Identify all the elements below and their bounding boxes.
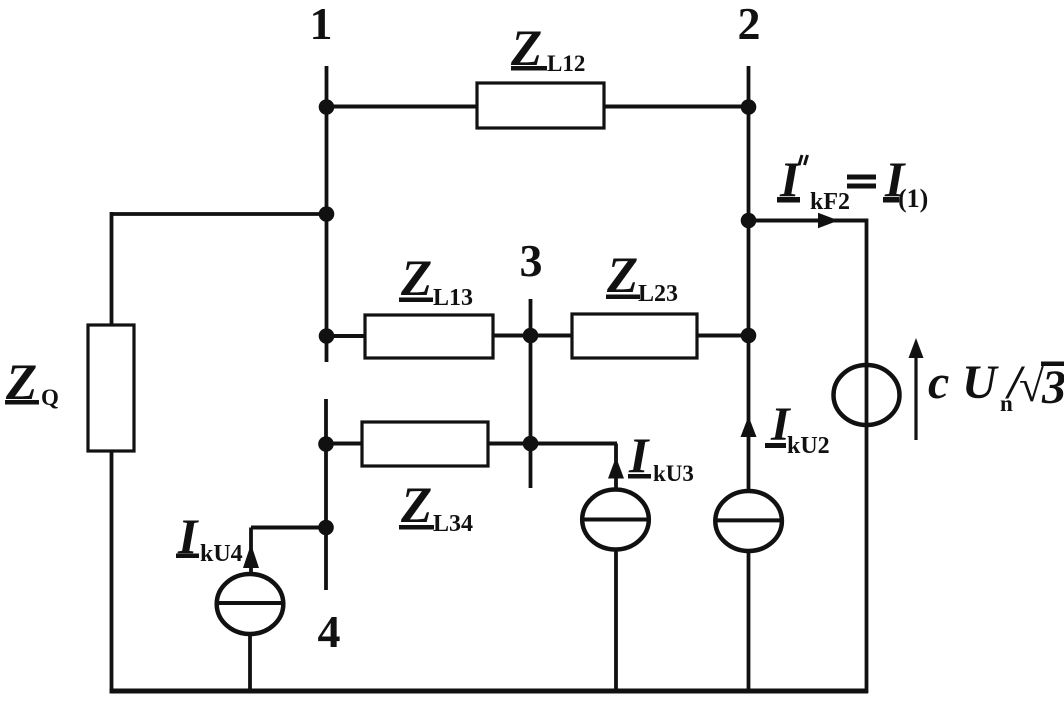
svg-text:L23: L23 <box>638 281 678 307</box>
label ZL12 <box>510 21 585 77</box>
svg-text:c: c <box>928 356 949 409</box>
wire node1 to ZL13 <box>327 334 366 338</box>
junction node1 top <box>319 99 335 115</box>
resistor ZL13 <box>365 315 493 358</box>
svg-text:kU4: kU4 <box>200 541 243 567</box>
wire node2 vertical bus <box>747 66 751 489</box>
junction node3 ZL34 <box>523 436 539 452</box>
arrow IkU4 up <box>243 544 259 568</box>
wire ZQ top vertical <box>110 212 114 325</box>
wire node3 bus to IkU3 drop <box>531 442 618 446</box>
wire ZL12 to node2 <box>604 105 749 109</box>
svg-text:3: 3 <box>520 235 543 286</box>
junction node3 <box>523 328 539 344</box>
wire node4 to ZL34 <box>326 442 362 446</box>
arrow IkU3 up <box>608 457 624 479</box>
junction node4 ZL34 <box>318 436 334 452</box>
label cUn <box>928 356 1064 416</box>
wire ZL13 to node3 <box>493 334 531 338</box>
junction node1 ZL13 <box>319 328 335 344</box>
label IkU4 <box>176 508 243 567</box>
svg-text:kU2: kU2 <box>787 433 830 459</box>
svg-text:Q: Q <box>41 385 59 410</box>
svg-text:kU3: kU3 <box>653 461 694 486</box>
wire IkU4 drop vertical <box>249 528 253 575</box>
label IkU2 <box>765 398 830 459</box>
arrow IkF2 right <box>818 213 839 229</box>
junction node2 top <box>741 99 757 115</box>
label IkF2 equals I1 <box>777 151 928 215</box>
wire IkU3 to rail <box>614 549 618 693</box>
wire ZL23 to node2 bus <box>697 334 749 338</box>
svg-text:2: 2 <box>738 0 761 49</box>
junction node2 ZL23 <box>741 328 757 344</box>
arrow cUn vertical <box>909 338 924 440</box>
wire IkF2 horizontal <box>749 219 867 223</box>
label ZL23 <box>606 248 678 307</box>
junction node2 IkF2 <box>741 213 757 229</box>
svg-text:kF2: kF2 <box>810 189 850 215</box>
bottom rail <box>110 689 869 694</box>
svg-text:(1): (1) <box>898 184 928 213</box>
current source IkU3 <box>582 490 649 550</box>
label ZL34 <box>399 478 473 537</box>
svg-text:4: 4 <box>318 606 341 657</box>
current source IkU4 <box>217 574 284 634</box>
resistor ZQ <box>88 325 134 451</box>
wire node1 vertical bus <box>325 66 329 362</box>
svg-text:3: 3 <box>1041 361 1064 414</box>
wire ZL34 to node3 bus <box>488 442 531 446</box>
label ZL13 <box>399 251 473 311</box>
wire node3 vertical bus <box>529 299 533 488</box>
svg-text:L12: L12 <box>547 51 585 76</box>
resistor ZL23 <box>572 314 697 358</box>
wire IkU4 to rail <box>248 634 252 694</box>
wire node1 to ZL12 <box>327 105 478 109</box>
wire source column vertical <box>865 219 869 694</box>
wire node4 vertical bus <box>324 399 328 590</box>
svg-text:U: U <box>962 356 999 409</box>
voltage source circle <box>834 365 900 425</box>
wire ZQ bottom vertical <box>110 451 114 693</box>
resistor ZL34 <box>362 422 488 466</box>
wire IkU3 drop vertical <box>614 444 618 491</box>
label ZQ <box>5 355 59 411</box>
wire IkU4 branch horizontal <box>251 526 326 530</box>
resistor ZL12 <box>477 83 604 128</box>
svg-text:1: 1 <box>310 0 333 49</box>
wire ZQ top horizontal <box>112 212 327 216</box>
wire node3 to ZL23 <box>531 334 573 338</box>
junction node1 ZQ <box>319 206 335 222</box>
wire IkU2 to rail <box>747 551 751 694</box>
current source IkU2 <box>715 491 782 551</box>
label IkU3 <box>628 427 694 486</box>
junction node4 IkU4 <box>318 520 334 536</box>
arrow IkU2 up <box>741 416 757 437</box>
svg-text:L13: L13 <box>433 285 473 311</box>
svg-text:L34: L34 <box>433 511 473 537</box>
